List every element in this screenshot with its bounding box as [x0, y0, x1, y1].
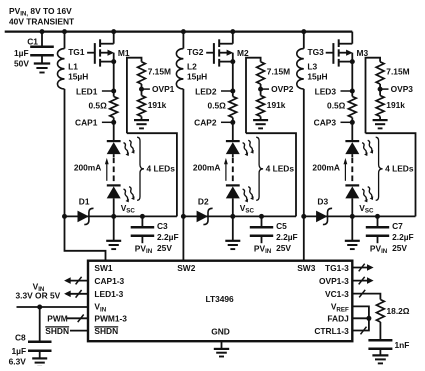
svg-text:CAP1-3: CAP1-3 [94, 276, 124, 286]
svg-text:PVIN: PVIN [135, 244, 153, 256]
svg-text:3.3V OR 5V: 3.3V OR 5V [16, 290, 61, 300]
svg-text:M2: M2 [237, 48, 249, 58]
svg-text:VIN: VIN [94, 302, 106, 314]
svg-text:191k: 191k [386, 100, 405, 110]
svg-text:CAP2: CAP2 [194, 118, 217, 128]
svg-text:7.15M: 7.15M [148, 66, 171, 76]
svg-text:GND: GND [211, 327, 230, 337]
svg-text:2.2µF: 2.2µF [392, 232, 414, 242]
svg-text:PWM1-3: PWM1-3 [94, 314, 127, 324]
svg-text:1µF: 1µF [12, 346, 27, 356]
svg-text:15µH: 15µH [187, 71, 207, 81]
svg-text:191k: 191k [148, 100, 167, 110]
svg-text:TG1-3: TG1-3 [325, 263, 349, 273]
svg-text:1nF: 1nF [395, 340, 410, 350]
svg-text:L2: L2 [187, 61, 197, 71]
svg-text:C3: C3 [157, 221, 168, 231]
svg-text:M1: M1 [118, 48, 130, 58]
svg-text:LED1: LED1 [76, 86, 98, 96]
svg-text:SW2: SW2 [177, 263, 195, 273]
svg-text:200mA: 200mA [74, 162, 101, 172]
svg-text:OVP2: OVP2 [271, 84, 294, 94]
svg-text:CTRL1-3: CTRL1-3 [314, 326, 349, 336]
svg-text:40V TRANSIENT: 40V TRANSIENT [9, 16, 75, 26]
svg-text:4 LEDs: 4 LEDs [147, 164, 176, 174]
svg-text:15µH: 15µH [68, 71, 88, 81]
svg-text:7.15M: 7.15M [267, 66, 290, 76]
svg-text:191k: 191k [267, 100, 286, 110]
svg-text:L1: L1 [68, 61, 78, 71]
svg-text:0.5Ω: 0.5Ω [327, 101, 346, 111]
svg-text:TG1: TG1 [68, 47, 85, 57]
svg-text:PVIN: PVIN [254, 244, 272, 256]
svg-text:PWM: PWM [47, 313, 67, 323]
svg-text:TG2: TG2 [187, 47, 204, 57]
svg-text:CAP3: CAP3 [314, 118, 337, 128]
svg-text:200mA: 200mA [312, 162, 339, 172]
svg-text:2.2µF: 2.2µF [157, 232, 179, 242]
svg-text:PVIN: PVIN [370, 244, 388, 256]
svg-text:0.5Ω: 0.5Ω [88, 101, 107, 111]
svg-text:M3: M3 [357, 48, 369, 58]
svg-text:4 LEDs: 4 LEDs [266, 164, 295, 174]
svg-text:25V: 25V [392, 243, 407, 253]
svg-text:15µH: 15µH [307, 71, 327, 81]
svg-text:VSC: VSC [240, 203, 255, 215]
svg-text:C7: C7 [392, 221, 403, 231]
svg-text:25V: 25V [276, 243, 291, 253]
svg-text:25V: 25V [157, 243, 172, 253]
svg-text:7.15M: 7.15M [386, 66, 409, 76]
svg-text:FADJ: FADJ [327, 314, 349, 324]
svg-text:1µF: 1µF [14, 48, 29, 58]
svg-text:SW1: SW1 [94, 263, 112, 273]
svg-text:C1: C1 [27, 36, 38, 46]
svg-text:D1: D1 [79, 196, 90, 206]
svg-text:D2: D2 [198, 196, 209, 206]
svg-text:LED3: LED3 [315, 86, 337, 96]
svg-text:OVP1: OVP1 [152, 84, 175, 94]
svg-text:TG3: TG3 [308, 47, 325, 57]
svg-text:VREF: VREF [331, 302, 349, 314]
svg-text:VSC: VSC [359, 203, 374, 215]
svg-text:VSC: VSC [121, 203, 136, 215]
svg-text:LT3496: LT3496 [205, 294, 234, 304]
svg-text:LED2: LED2 [195, 86, 217, 96]
svg-text:C5: C5 [276, 221, 287, 231]
svg-text:0.5Ω: 0.5Ω [208, 101, 227, 111]
svg-text:LED1-3: LED1-3 [94, 289, 123, 299]
svg-text:4 LEDs: 4 LEDs [385, 164, 414, 174]
svg-text:6.3V: 6.3V [9, 357, 27, 366]
svg-text:L3: L3 [307, 61, 317, 71]
svg-text:VC1-3: VC1-3 [325, 289, 349, 299]
svg-text:SW3: SW3 [297, 263, 315, 273]
svg-text:C8: C8 [15, 332, 26, 342]
svg-text:50V: 50V [14, 59, 29, 69]
svg-text:2.2µF: 2.2µF [276, 232, 298, 242]
svg-text:OVP1-3: OVP1-3 [319, 276, 349, 286]
svg-text:CAP1: CAP1 [75, 118, 98, 128]
svg-text:200mA: 200mA [193, 162, 220, 172]
svg-text:D3: D3 [317, 196, 328, 206]
svg-text:18.2Ω: 18.2Ω [387, 306, 410, 316]
svg-text:OVP3: OVP3 [391, 84, 414, 94]
